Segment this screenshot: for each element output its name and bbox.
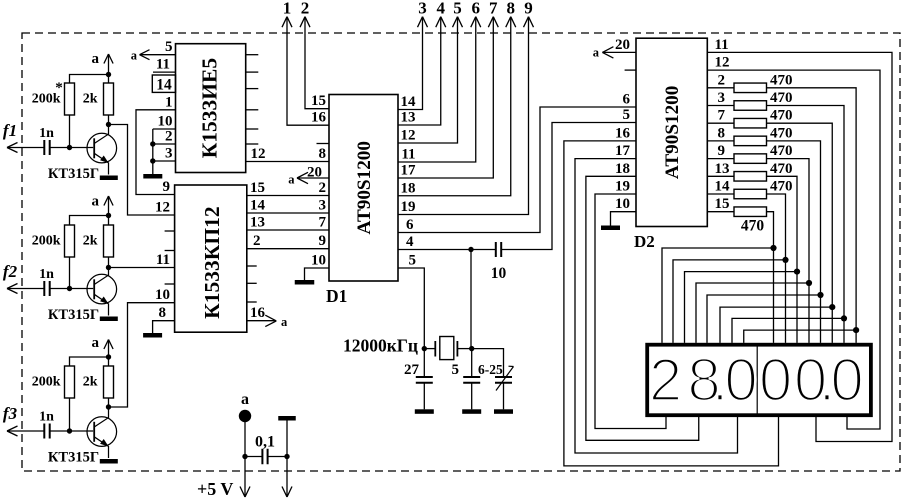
svg-text:a: a — [131, 49, 138, 63]
svg-text:17: 17 — [615, 143, 631, 159]
node supply junction a (stage f3) — [106, 354, 111, 359]
capacitor 0,1 blocking — [245, 434, 287, 465]
pin 10 of D1 to ground — [305, 252, 330, 280]
wire segment branch to left display column — [673, 260, 786, 343]
wire resistor pin 15 to display column — [767, 212, 774, 343]
pin 11 of KP12 wire from Q2 collector — [109, 252, 175, 268]
ground (emitter of Q3) — [100, 459, 118, 464]
svg-text:10: 10 — [158, 114, 173, 130]
unconnected stub D1 left y141 — [317, 143, 330, 145]
unconnected stub KP12 left y250 — [165, 250, 175, 252]
wire 200k top to supply junction — [70, 357, 109, 366]
pin 15 of KP12 wire to D1 pin 2 — [247, 180, 329, 196]
svg-text:D2: D2 — [634, 232, 655, 251]
svg-text:3: 3 — [165, 146, 173, 162]
svg-text:6: 6 — [406, 217, 414, 233]
wire right node down to cap 5 — [471, 349, 473, 377]
pin 16 of D2 wire to display digit — [564, 125, 779, 466]
connector 2 arrow — [300, 0, 310, 27]
svg-text:6: 6 — [623, 92, 631, 108]
wire segment branch to left display column — [696, 283, 809, 343]
pin 19 of D1 wire to connector 9 — [398, 17, 529, 215]
wire segment branch to left display column — [707, 295, 821, 343]
pin 7 of D1 — [319, 215, 327, 231]
svg-text:12: 12 — [155, 200, 170, 216]
pin 9 of D1 — [319, 233, 327, 249]
svg-text:D1: D1 — [326, 286, 347, 306]
connector 5 arrow — [453, 0, 463, 27]
pin 9 of D2 — [707, 143, 734, 159]
resistor 470 (segment, pin 3) — [734, 90, 793, 110]
wire cap to base node — [50, 147, 70, 149]
svg-text:*: * — [55, 80, 63, 96]
svg-text:200k: 200k — [32, 375, 61, 390]
pin 16 of KP12 with supply arrow a — [247, 305, 288, 329]
connector 7 arrow — [488, 0, 498, 27]
svg-text:12: 12 — [715, 55, 730, 71]
pin 16 of D1 wire to connector 1 — [287, 17, 329, 126]
pin 20 of D1 with supply arrow a — [288, 164, 329, 186]
resistor 470 (segment, pin 14) — [734, 179, 793, 199]
ground (cap 5) — [462, 409, 481, 414]
svg-text:470: 470 — [770, 72, 793, 88]
wire resistor pin 2 to display column — [767, 88, 857, 343]
svg-text:a: a — [92, 194, 100, 210]
pin 10 of KP12 wire from Q3 collector — [109, 287, 175, 407]
svg-text:13: 13 — [715, 161, 730, 177]
resistor 2k (stage f3) — [83, 366, 114, 398]
pin 8 of D1 — [319, 146, 327, 162]
node crystal left junction — [422, 346, 427, 351]
pin 11 of D2 wire to display digit — [707, 37, 892, 442]
wire 2k bottom to collector node — [108, 398, 110, 407]
svg-text:11: 11 — [156, 57, 170, 73]
pin 15 of D1 wire to connector 2 — [305, 17, 329, 110]
resistor 200k (stage f3) — [32, 366, 75, 398]
pin 7 of D2 — [707, 108, 734, 124]
wire right node to trimmer branch — [472, 349, 504, 377]
svg-text:18: 18 — [401, 180, 416, 196]
svg-text:AT90S1200: AT90S1200 — [662, 86, 683, 179]
unconnected stub D2 left y70 — [625, 69, 636, 71]
wire resistor pin 8 to display column — [767, 141, 821, 343]
svg-text:1n: 1n — [39, 126, 54, 141]
capacitor 1n (f2 input) — [39, 267, 54, 296]
wire 200k top to supply junction — [70, 75, 109, 84]
svg-text:470: 470 — [770, 125, 793, 141]
svg-text:11: 11 — [156, 252, 170, 268]
wire resistor pin 9 to display column — [767, 159, 810, 343]
wire cap to base node — [50, 430, 70, 432]
wire +5V down — [244, 416, 246, 497]
svg-text:+5 V: +5 V — [197, 479, 233, 499]
wire resistor pin 13 to display column — [767, 176, 798, 343]
wire left node down to cap 27 — [423, 349, 425, 377]
node segment junction x785 — [782, 257, 788, 263]
unconnected stubs right side of K1533IE5 — [246, 55, 259, 144]
ground (D2 pin 10) — [601, 226, 620, 231]
pin 1 of K1533IE5 wire to KP12 pin 9 — [136, 94, 176, 194]
transistor Q1 KT315G — [48, 125, 117, 183]
svg-text:3: 3 — [319, 198, 327, 214]
svg-text:9: 9 — [319, 233, 327, 249]
wire 2k bottom to collector node — [108, 115, 110, 125]
pin 20 of D2 with supply arrow a — [593, 37, 636, 60]
pin 13 of D1 wire to connector 4 — [398, 17, 441, 126]
wire base node to transistor base — [70, 430, 94, 432]
pin 14 box of K1533IE5 — [152, 75, 175, 94]
svg-text:f3: f3 — [3, 404, 18, 423]
svg-text:13: 13 — [250, 215, 265, 231]
svg-text:16: 16 — [615, 125, 631, 141]
svg-text:9: 9 — [718, 143, 726, 159]
wire segment branch to left display column — [685, 272, 798, 343]
supply arrow a (stage f3) — [92, 335, 114, 366]
node segment junction x773 — [770, 245, 776, 251]
pin 6 of D1 wire to D2 pin 6 — [398, 107, 636, 233]
svg-text:6-25: 6-25 — [478, 362, 503, 377]
connector 3 arrow — [418, 0, 428, 27]
wire 200k bottom to base node — [69, 398, 71, 431]
svg-text:18: 18 — [615, 161, 630, 177]
node a (+5V supply net) — [239, 391, 251, 422]
wire 200k bottom to base node — [69, 115, 71, 148]
pin 18 of D1 wire to connector 8 — [398, 17, 511, 197]
svg-text:7: 7 — [489, 0, 498, 18]
svg-text:f1: f1 — [3, 121, 17, 140]
wire left node to crystal — [424, 348, 435, 350]
ground (emitter of Q2) — [100, 317, 118, 322]
svg-text:10: 10 — [615, 196, 630, 212]
wire f1 input — [7, 147, 44, 149]
resistor 200k (stage f2) — [32, 225, 75, 257]
capacitor 1n (f3 input) — [39, 410, 54, 439]
svg-text:10: 10 — [491, 265, 507, 282]
resistor 2k (stage f1) — [83, 83, 114, 115]
ground (emitter of Q1) — [100, 176, 118, 181]
connector 4 arrow — [436, 0, 446, 27]
svg-text:10: 10 — [155, 287, 170, 303]
svg-text:3: 3 — [718, 90, 726, 106]
capacitor 27 — [404, 362, 433, 409]
IC multiplexer K1533KP12 box — [175, 185, 247, 332]
node segment junction x832 — [829, 304, 835, 310]
wire base node to transistor base — [70, 288, 94, 290]
svg-text:1: 1 — [283, 0, 292, 18]
pin 13 of KP12 wire to D1 pin 7 — [247, 215, 329, 231]
node pin4/crystal junction — [468, 247, 473, 252]
pin 5 of K1533IE5 with supply arrow a — [131, 39, 176, 63]
transistor Q3 KT315G — [48, 407, 117, 466]
pin 9 of KP12 — [163, 179, 171, 195]
svg-text:0: 0 — [724, 347, 757, 414]
input connector f3 — [3, 404, 18, 436]
wire junction to cap 10 — [471, 249, 496, 251]
svg-text:a: a — [92, 51, 100, 67]
svg-text:470: 470 — [770, 90, 793, 106]
svg-text:a: a — [593, 46, 600, 60]
svg-text:15: 15 — [250, 180, 265, 196]
input connector f2 — [3, 262, 18, 294]
svg-text:12: 12 — [251, 146, 266, 162]
connector 1 arrow — [282, 0, 292, 27]
pin 12 of K1533IE5 wire to D1 pin 8 — [246, 146, 329, 162]
pin 3 of D1 — [319, 198, 327, 214]
svg-text:2: 2 — [649, 347, 682, 414]
node +5V junction — [242, 454, 247, 459]
wire cap 10 to D2 pin 5 — [501, 123, 636, 250]
pin 2 of KP12 wire to D1 pin 9 — [247, 233, 329, 249]
svg-text:К1533ИЕ5: К1533ИЕ5 — [198, 58, 222, 158]
pin 18 of D2 wire to display digit — [586, 161, 699, 441]
svg-text:15: 15 — [311, 93, 326, 109]
svg-text:a: a — [281, 315, 288, 329]
svg-text:10: 10 — [311, 252, 326, 268]
ground (K1533IE5 pins 2,3) — [143, 174, 162, 179]
svg-text:КТ315Г: КТ315Г — [48, 307, 99, 323]
crystal ZQ1 12000kHz — [435, 337, 457, 360]
svg-text:4: 4 — [406, 234, 414, 250]
wire f2 input — [7, 288, 44, 290]
wire base node to transistor base — [70, 147, 94, 149]
svg-text:2k: 2k — [83, 375, 98, 390]
MCU D2 AT90S1200 box — [634, 38, 707, 251]
pin 6 of D2 — [623, 92, 631, 108]
node segment junction x809 — [806, 280, 812, 286]
capacitor 1n (f1 input) — [39, 126, 54, 155]
ground (blocking cap) — [278, 416, 296, 421]
IC counter K1533IE5 box — [176, 44, 246, 173]
transistor Q2 KT315G — [48, 268, 117, 324]
pin 2 of D1 — [319, 180, 327, 196]
node ground junction — [284, 454, 289, 459]
resistor 470 (segment, pin 15) — [734, 207, 767, 235]
wire right node up to pin4 node — [470, 250, 472, 349]
wire ground down — [286, 421, 288, 498]
resistor 470 (segment, pin 2) — [734, 72, 793, 92]
svg-text:a: a — [92, 335, 100, 351]
+5 V connector arrow — [197, 479, 250, 499]
node segment junction x844 — [841, 315, 847, 321]
wire segment branch to left display column — [732, 318, 844, 343]
capacitor 5 — [452, 362, 481, 409]
svg-text:20: 20 — [615, 37, 630, 53]
svg-text:5: 5 — [409, 252, 417, 268]
svg-text:1n: 1n — [39, 267, 54, 282]
svg-text:0: 0 — [830, 347, 863, 414]
pin 19 of D2 wire to display digit — [595, 179, 666, 429]
GND connector arrow — [282, 487, 292, 498]
pin 17 of D1 wire to connector 7 — [398, 17, 493, 179]
svg-text:2k: 2k — [83, 234, 98, 249]
trimmer capacitor 6-25 — [478, 362, 514, 409]
svg-text:14: 14 — [250, 198, 266, 214]
svg-text:11: 11 — [401, 147, 415, 163]
wire 200k top to supply junction — [70, 216, 109, 226]
pin 13 of D2 — [707, 161, 734, 177]
pin 12 of D1 wire to connector 5 — [398, 17, 458, 144]
svg-text:5: 5 — [452, 362, 460, 378]
pin 14 of D2 — [707, 179, 734, 195]
svg-text:14: 14 — [401, 94, 417, 110]
svg-text:2k: 2k — [83, 92, 98, 107]
pin 14 of KP12 wire to D1 pin 3 — [247, 198, 329, 214]
svg-text:16: 16 — [250, 305, 266, 321]
wire f3 input — [7, 430, 44, 432]
pin 3 of K1533IE5 — [153, 146, 176, 162]
pin 11 of D1 wire to connector 6 — [398, 17, 476, 163]
svg-text:19: 19 — [401, 199, 416, 215]
connector 6 arrow — [471, 0, 481, 27]
svg-text:13: 13 — [401, 110, 416, 126]
pin 4 of D1 wire to coupling cap — [398, 234, 471, 250]
svg-text:14: 14 — [715, 179, 731, 195]
svg-text:5: 5 — [165, 39, 173, 55]
node segment junction x797 — [794, 269, 800, 275]
pin 5 of D2 — [623, 107, 631, 123]
pin 12 of KP12 wire from Q1 collector — [109, 125, 175, 216]
node supply junction a (stage f1) — [106, 72, 111, 77]
svg-text:6: 6 — [472, 0, 481, 18]
svg-text:1n: 1n — [39, 410, 54, 425]
MCU D1 AT90S1200 box — [326, 95, 398, 307]
unconnected stub KP12 right y266 — [247, 265, 257, 267]
wire resistor pin 3 to display column — [767, 106, 845, 343]
resistor 470 (segment, pin 8) — [734, 125, 793, 145]
ground (cap 27) — [415, 409, 434, 414]
svg-text:4: 4 — [437, 0, 446, 18]
pin 2 of D2 — [707, 72, 734, 88]
svg-text:7: 7 — [319, 215, 327, 231]
wire pins 10-2-3 tie-down — [152, 129, 154, 174]
svg-text:КТ315Г: КТ315Г — [48, 450, 99, 466]
svg-text:470: 470 — [741, 218, 765, 235]
svg-text:К1533КП12: К1533КП12 — [200, 206, 224, 318]
svg-text:8: 8 — [507, 0, 516, 18]
capacitor 10 coupling — [491, 242, 507, 282]
pin 3 of D2 — [707, 90, 734, 106]
resistor 470 (segment, pin 9) — [734, 143, 793, 163]
wire resistor pin 14 to display column — [767, 194, 786, 343]
7-segment display module box — [647, 345, 871, 416]
svg-text:470: 470 — [770, 108, 793, 124]
node base junction — [67, 428, 72, 433]
pin 17 of D2 wire to display digit — [575, 143, 738, 453]
node collector junction (stage f2) — [106, 265, 111, 270]
connector 9 arrow — [524, 0, 534, 27]
wire resistor pin 7 to display column — [767, 123, 833, 343]
pin 15 of D2 — [707, 196, 734, 212]
svg-text:1: 1 — [165, 94, 173, 110]
svg-text:2: 2 — [253, 233, 261, 249]
svg-text:8: 8 — [718, 125, 726, 141]
pin 12 of D2 wire to display digit — [707, 55, 880, 429]
ground (KP12 pin 8) — [143, 333, 162, 338]
svg-text:16: 16 — [311, 110, 327, 126]
connector 8 arrow — [506, 0, 516, 27]
resistor 200k (stage f1) — [32, 80, 75, 115]
svg-text:2: 2 — [301, 0, 310, 18]
node base junction — [67, 145, 72, 150]
resistor 470 (segment, pin 13) — [734, 161, 793, 181]
unconnected stub KP12 left y231 — [165, 230, 175, 232]
pin 5 of D1 wire to crystal — [398, 252, 424, 348]
ground (trimmer 6-25) — [494, 409, 513, 414]
display digits 28.000.0 — [649, 347, 864, 414]
supply arrow a (stage f1) — [92, 51, 114, 83]
svg-text:5: 5 — [453, 0, 462, 18]
wire segment branch to left display column — [720, 307, 832, 343]
unconnected stub KP12 left y284 — [165, 283, 175, 285]
node base junction — [67, 286, 72, 291]
svg-text:9: 9 — [163, 179, 171, 195]
wire segment branch to left display column — [744, 330, 856, 343]
wire 2k bottom to collector node — [108, 257, 110, 268]
supply arrow a (stage f2) — [92, 194, 114, 226]
node supply junction a (stage f2) — [106, 213, 111, 218]
svg-text:2: 2 — [319, 180, 327, 196]
svg-text:2: 2 — [718, 72, 726, 88]
pin 8 of D2 — [707, 125, 734, 141]
resistor 2k (stage f2) — [83, 225, 114, 257]
svg-text:12: 12 — [401, 128, 416, 144]
pin 14 of D1 wire to connector 3 — [398, 17, 423, 110]
node segment junction x856 — [853, 327, 859, 333]
svg-text:8: 8 — [319, 146, 327, 162]
ground (D1 pin 10) — [295, 280, 315, 285]
node collector junction (stage f1) — [106, 122, 111, 127]
svg-text:200k: 200k — [32, 234, 61, 249]
pin 11 stub of K1533IE5 — [153, 57, 176, 73]
pin 10 of K1533IE5 — [153, 114, 176, 130]
svg-text:8: 8 — [159, 305, 167, 321]
node crystal right junction — [469, 346, 474, 351]
svg-text:470: 470 — [770, 161, 793, 177]
svg-text:17: 17 — [401, 163, 417, 179]
svg-text:470: 470 — [770, 179, 793, 195]
svg-text:27: 27 — [404, 362, 420, 378]
node segment junction x820 — [817, 292, 823, 298]
svg-text:14: 14 — [156, 77, 172, 94]
svg-text:15: 15 — [715, 196, 730, 212]
svg-text:AT90S1200: AT90S1200 — [354, 141, 375, 234]
pin 2 of K1533IE5 — [153, 129, 176, 145]
wire cap to base node — [50, 288, 70, 290]
svg-text:5: 5 — [623, 107, 631, 123]
input connector f1 — [3, 121, 18, 153]
svg-text:19: 19 — [615, 179, 630, 195]
node collector junction (stage f3) — [106, 404, 111, 409]
wire 200k bottom to base node — [69, 257, 71, 289]
node pin3 junction — [150, 158, 155, 163]
svg-text:КТ315Г: КТ315Г — [48, 166, 99, 182]
svg-text:11: 11 — [715, 37, 729, 53]
svg-text:a: a — [288, 172, 295, 186]
wire segment branch to left display column — [662, 248, 774, 343]
svg-text:f2: f2 — [3, 262, 18, 281]
svg-text:0,1: 0,1 — [255, 434, 275, 451]
unconnected stub KP12 right y302 — [247, 301, 257, 303]
svg-text:9: 9 — [524, 0, 533, 18]
resistor 470 (segment, pin 7) — [734, 108, 793, 128]
svg-text:3: 3 — [418, 0, 427, 18]
unconnected stub KP12 right y283 — [247, 282, 257, 284]
node pin2 junction — [150, 141, 155, 146]
svg-text:12000кГц: 12000кГц — [343, 336, 418, 356]
svg-text:2: 2 — [165, 129, 173, 145]
pin 8 of KP12 to ground — [153, 305, 175, 333]
svg-text:470: 470 — [770, 143, 793, 159]
